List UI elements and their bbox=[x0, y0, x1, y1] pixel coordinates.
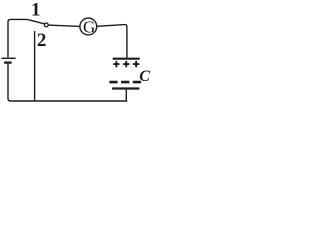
contact 2 wire bbox=[34, 31, 36, 101]
svg-text:2: 2 bbox=[37, 30, 47, 51]
switch pivot circle bbox=[44, 23, 48, 27]
wire battery to bottom and bottom wire bbox=[8, 64, 127, 101]
svg-text:C: C bbox=[139, 68, 150, 85]
plus charges on top plate bbox=[113, 61, 139, 67]
battery short plate bbox=[4, 61, 12, 63]
capacitor C top plate bbox=[113, 58, 140, 60]
minus charges on bottom plate bbox=[109, 81, 141, 84]
switch blade bbox=[27, 19, 45, 24]
svg-text:1: 1 bbox=[31, 0, 41, 20]
wire bottom plate to bottom wire bbox=[125, 90, 127, 101]
wire G to top-right corner and right vertical bbox=[97, 25, 127, 58]
capacitor C bottom plate bbox=[112, 87, 139, 89]
wire switch to galvanometer bbox=[48, 25, 80, 26]
svg-text:G: G bbox=[83, 18, 95, 37]
battery long plate bbox=[2, 57, 16, 59]
wire left+top from corner to switch bbox=[8, 19, 27, 57]
galvanometer U1 circle bbox=[80, 18, 97, 35]
